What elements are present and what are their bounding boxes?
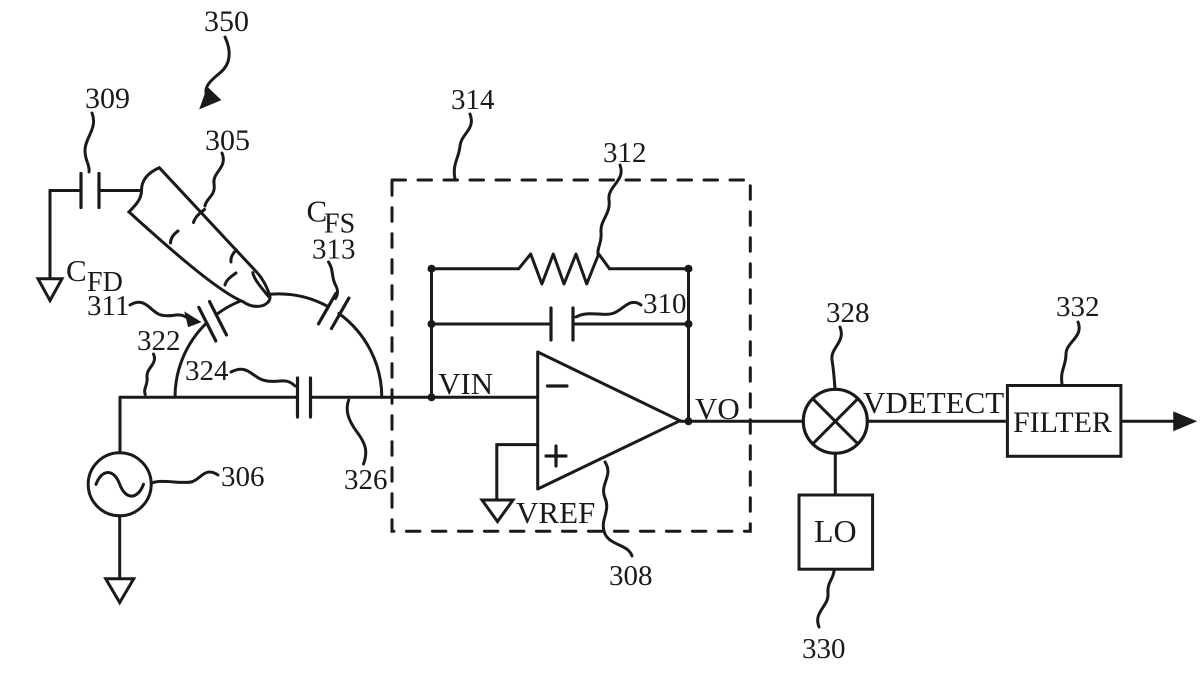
svg-text:308: 308 bbox=[609, 560, 653, 592]
wire to ground (top-left) bbox=[49, 191, 52, 279]
finger 305 bbox=[129, 168, 270, 307]
svg-text:309: 309 bbox=[85, 82, 130, 115]
AC source 306 bbox=[88, 453, 151, 516]
wire mixer to LO bbox=[834, 453, 837, 495]
capacitor 311 (finger-dome) plates bbox=[199, 307, 216, 341]
minus input sign bbox=[548, 384, 568, 387]
svg-text:305: 305 bbox=[205, 124, 250, 157]
wire minus input bbox=[432, 396, 538, 399]
leader 306 bbox=[152, 472, 218, 483]
AC source wire top bbox=[119, 397, 122, 453]
svg-text:332: 332 bbox=[1056, 291, 1100, 323]
svg-text:FILTER: FILTER bbox=[1013, 406, 1112, 439]
leader 313 bbox=[329, 262, 338, 299]
leader 309 bbox=[85, 113, 94, 172]
sensor dome electrode arc (drawn before finger so finger occludes) bbox=[175, 323, 207, 397]
mixer 328 bbox=[803, 389, 867, 453]
capacitor row right wire bbox=[573, 323, 689, 326]
capacitor 324 bbox=[296, 378, 299, 417]
leader 322 bbox=[145, 354, 155, 395]
output wire with arrow bbox=[1121, 420, 1176, 423]
svg-text:312: 312 bbox=[603, 137, 647, 169]
ground (top-left) bbox=[38, 279, 62, 301]
svg-text:330: 330 bbox=[802, 633, 846, 665]
plus input sign bbox=[546, 446, 566, 466]
svg-text:313: 313 bbox=[312, 234, 356, 266]
svg-text:311: 311 bbox=[87, 290, 129, 322]
leader 312 bbox=[598, 165, 621, 254]
node dot cap-left bbox=[428, 320, 436, 328]
node dot resistor-left bbox=[428, 265, 436, 273]
svg-text:324: 324 bbox=[185, 355, 229, 387]
node dot VIN bbox=[428, 393, 436, 401]
leader 326 bbox=[347, 400, 366, 464]
leader 314 bbox=[454, 114, 471, 179]
capacitor 309 bbox=[50, 189, 81, 192]
leader 332 bbox=[1062, 322, 1080, 384]
node dot resistor-right bbox=[685, 265, 693, 273]
feedback right vertical wire bbox=[687, 269, 690, 422]
ground (below source) bbox=[106, 579, 134, 603]
svg-text:VO: VO bbox=[695, 391, 740, 426]
finger crease 4 bbox=[225, 273, 236, 285]
ground VREF bbox=[482, 500, 513, 522]
svg-text:VIN: VIN bbox=[438, 366, 493, 401]
leader 330 bbox=[818, 571, 834, 627]
svg-text:326: 326 bbox=[344, 464, 388, 496]
AC source wire bottom bbox=[118, 516, 121, 579]
svg-text:306: 306 bbox=[221, 461, 265, 493]
FILTER box 332 bbox=[1007, 386, 1121, 457]
leader 311 with arrowhead bbox=[130, 302, 186, 317]
wire plus input bbox=[497, 445, 538, 500]
dashed box 314 bbox=[392, 180, 750, 531]
leader 305 bbox=[205, 153, 223, 206]
leader 310 bbox=[576, 302, 641, 317]
finger crease 3 bbox=[231, 250, 237, 262]
svg-text:322: 322 bbox=[137, 325, 181, 357]
finger crease 1 bbox=[194, 210, 205, 223]
svg-text:C: C bbox=[66, 253, 87, 288]
op-amp 308 bbox=[538, 352, 680, 489]
finger crease 2 bbox=[171, 231, 179, 243]
main input wire (cap 324 to VIN node) bbox=[311, 396, 432, 399]
svg-text:310: 310 bbox=[643, 288, 687, 320]
leader 324 bbox=[231, 369, 295, 386]
svg-text:350: 350 bbox=[204, 5, 249, 38]
svg-text:314: 314 bbox=[451, 84, 495, 116]
capacitor 310 bbox=[549, 308, 552, 340]
leader arrow for 350 bbox=[206, 37, 229, 93]
fingernail bbox=[253, 273, 269, 297]
leader 328 bbox=[832, 327, 842, 388]
svg-text:VDETECT: VDETECT bbox=[863, 385, 1004, 420]
wire mixer to filter bbox=[867, 420, 1007, 423]
feedback left vertical wire bbox=[430, 269, 433, 398]
resistor row left wire bbox=[432, 267, 519, 270]
svg-text:VREF: VREF bbox=[516, 495, 595, 530]
node dot VO bbox=[685, 417, 693, 425]
capacitor 313 (dome-shield) plates bbox=[319, 293, 336, 323]
svg-text:328: 328 bbox=[826, 297, 870, 329]
node dot cap-right bbox=[685, 320, 693, 328]
leader 308 bbox=[603, 462, 632, 556]
svg-text:LO: LO bbox=[814, 513, 857, 549]
capacitor row left wire bbox=[432, 323, 552, 326]
resistor 312 bbox=[519, 254, 610, 284]
main input wire (left of cap 324) bbox=[120, 396, 298, 399]
output wire VO to mixer bbox=[680, 420, 803, 423]
LO box 330 bbox=[799, 495, 873, 569]
resistor row right wire bbox=[610, 267, 689, 270]
